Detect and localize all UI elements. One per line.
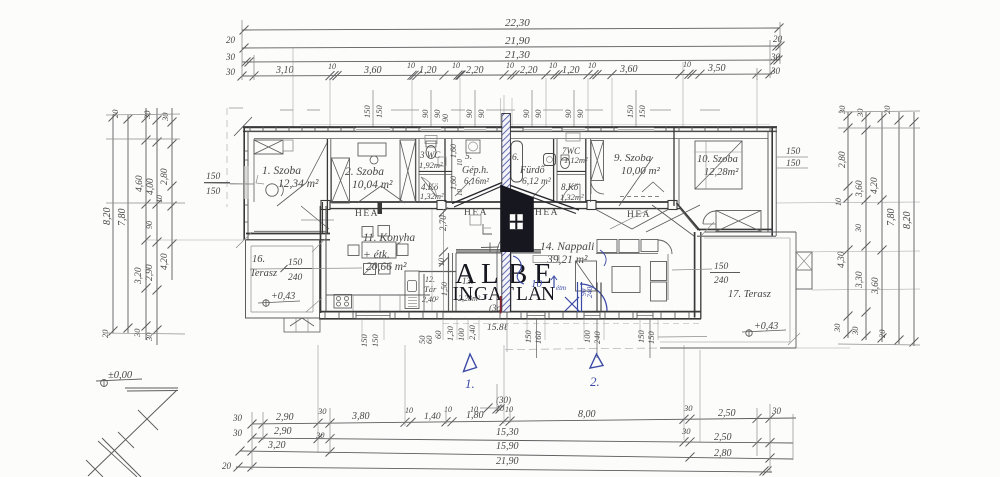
svg-text:10: 10 [834,198,843,206]
living sofa right column [651,262,667,281]
svg-text:150: 150 [786,147,801,157]
room12 walls [419,271,456,273]
svg-text:15.8ℓ: 15.8ℓ [487,323,508,333]
kitchen west wall [320,206,322,313]
top wall masonry ticks [249,127,251,132]
svg-text:8,00: 8,00 [578,409,596,420]
south wall stub post [378,202,383,214]
wc7 small window rect [566,133,580,141]
svg-text:N: N [541,284,555,305]
blue section triangle 1 [464,354,477,372]
svg-text:1.: 1. [465,376,475,391]
kitchen-entry divider line [431,209,433,311]
svg-text:150: 150 [359,334,369,348]
room10 corner shelf arc [703,211,716,224]
wc3 door [438,157,446,166]
gep5 appliance [466,140,480,153]
long vertical extension x=293 [292,48,294,127]
svg-text:150: 150 [362,105,372,119]
bottom block vertical extensions [251,412,253,470]
svg-text:30: 30 [837,105,847,115]
svg-text:150: 150 [288,258,303,268]
left wall masonry ticks [244,150,249,152]
building left exterior wall [243,127,245,240]
window dim pair 150/150 at x=373 [372,90,374,127]
svg-text:3,60: 3,60 [363,65,382,76]
svg-text:2,90: 2,90 [145,264,155,281]
svg-text:90: 90 [476,109,486,118]
svg-text:1,20: 1,20 [562,65,580,76]
watermark house body [500,185,534,253]
svg-text:3,60: 3,60 [855,180,865,198]
top block right extension lines [779,22,781,64]
svg-text:2,20: 2,20 [520,65,538,76]
right dim block vertical line col3 [881,112,883,342]
long vertical extension x=504 [503,95,505,113]
svg-text:30: 30 [225,52,236,62]
bottom chain line 2 [252,438,793,443]
svg-text:10: 10 [683,60,691,69]
svg-text:1,60: 1,60 [449,144,458,158]
blue arrow near ALBE [553,277,555,288]
bottom-left slope tick 1 [138,410,158,430]
room1 niche bracket [256,175,264,184]
svg-text:2,20: 2,20 [466,65,484,76]
svg-text:20: 20 [110,109,120,118]
svg-text:60: 60 [433,330,443,339]
svg-text:30: 30 [160,112,170,122]
svg-text:10: 10 [506,61,514,70]
svg-text:15,90: 15,90 [496,441,519,452]
room13 east wall [455,253,457,311]
svg-text:150: 150 [206,172,221,182]
svg-text:2.: 2. [590,374,600,389]
svg-text:90: 90 [441,114,450,122]
left 150/150 window dim [204,183,254,184]
kitchen table [362,242,396,258]
svg-text:10: 10 [531,278,543,290]
svg-text:8,20: 8,20 [902,212,913,230]
living sofa top row [597,240,617,253]
svg-text:20: 20 [222,461,232,471]
window dim pair 90/90 at x=574 [573,90,575,127]
svg-text:4,20: 4,20 [870,177,880,194]
strip flank verticals above building [500,98,502,127]
bottom-left slope double diagonal [102,438,141,477]
room12/13 north wall [456,250,541,253]
datum cross near entry [481,246,499,249]
leader line from 150/150 labels right [658,336,707,339]
extension verticals below wall [361,319,363,340]
svg-text:2,50: 2,50 [714,432,732,443]
svg-text:2. Szoba: 2. Szoba [345,166,384,178]
dimension chain line segments top [242,74,772,76]
blue X mark at entry [565,297,579,311]
svg-text:10: 10 [407,61,415,70]
corridor desk [470,215,481,225]
svg-text:30: 30 [132,328,142,338]
svg-text:10: 10 [549,61,557,70]
dashed footing line below wall [443,323,700,325]
blue section triangle 2 [590,354,603,368]
svg-text:30: 30 [317,406,327,416]
blue S curve [513,256,524,284]
building top exterior wall [243,126,777,128]
svg-text:Terasz: Terasz [250,268,277,279]
kitchen stove with burners [334,295,352,309]
svg-text:4,20: 4,20 [160,253,170,270]
room10 crossed bench [716,211,761,232]
left block horizontal connectors [106,114,180,115]
room9 door swing [591,181,604,194]
right dim block vertical line 8,20 [913,112,915,346]
room1 ceiling leader line [230,183,254,185]
svg-text:21,90: 21,90 [505,35,530,47]
svg-text:3,50: 3,50 [707,63,726,74]
svg-text:15,30: 15,30 [496,427,519,438]
svg-text:60: 60 [424,335,434,344]
svg-text:90: 90 [533,109,543,118]
dimension line 21,90 [242,46,780,48]
left dim block vertical line col3 [145,108,147,340]
eaves faint line above top wall [300,123,770,125]
svg-text:90: 90 [563,109,573,118]
svg-text:10: 10 [505,405,513,414]
svg-text:6,12 m²: 6,12 m² [522,177,551,187]
right block horizontal connectors [838,111,920,112]
kitchen oven tower [405,271,419,309]
svg-text:+0,43: +0,43 [271,291,295,302]
svg-text:Tár: Tár [424,284,437,294]
svg-text:30: 30 [854,224,863,233]
room9 dashed line [620,196,660,198]
level mark +-0,00 [101,380,108,387]
chimney shaft blue hatched strip [502,114,511,313]
svg-text:8.Kö: 8.Kö [561,182,579,192]
room1 tall wardrobe crossed [332,158,350,203]
dimension line 21,30 [242,60,780,62]
svg-text:1,92m²: 1,92m² [419,160,443,170]
bottom wall window openings [356,313,390,318]
interior vertical dim 2,70 [443,209,445,311]
kitchen counter along bottom [326,294,430,296]
svg-text:150: 150 [206,187,221,197]
kitchen chair diagonal [364,264,376,275]
terrace 17 corner diagonal [700,222,714,237]
svg-text:1. Szoba: 1. Szoba [262,165,301,177]
svg-text:2,40²: 2,40² [422,295,439,304]
svg-text:90: 90 [420,109,430,118]
svg-text:5.: 5. [465,152,472,162]
room10 bed with diagonal [695,141,742,189]
svg-text:1,40: 1,40 [424,412,441,422]
long extension verticals below wall [536,319,538,358]
svg-text:1,50: 1,50 [440,282,449,296]
svg-text:4,00: 4,00 [146,178,156,195]
svg-text:90: 90 [145,221,154,229]
wc3 window sill [425,136,437,144]
wc7 toilet [561,158,570,169]
room9 chevron [642,182,664,192]
svg-text:150: 150 [637,105,647,119]
svg-text:100: 100 [582,330,592,344]
svg-text:21,90: 21,90 [496,456,519,467]
svg-text:20: 20 [773,34,783,44]
hall door swings below room9 [595,209,669,229]
svg-text:10: 10 [470,405,478,414]
room1 lamp circle [266,184,278,196]
corridor door arc [497,231,519,253]
svg-text:6.: 6. [512,153,519,163]
svg-text:10. Szoba: 10. Szoba [697,154,738,165]
svg-text:1,30: 1,30 [445,325,455,341]
right 150/150 window dim [776,156,808,158]
svg-text:1,60: 1,60 [449,176,458,190]
svg-text:3,10: 3,10 [275,65,294,76]
svg-text:30: 30 [225,67,236,77]
svg-text:HEA: HEA [464,208,488,218]
svg-text:N: N [459,284,473,305]
svg-text:10: 10 [405,406,413,415]
svg-text:150: 150 [714,262,729,272]
svg-text:30: 30 [850,326,860,336]
svg-text:20: 20 [877,329,887,338]
left dim block vertical line 7,80 [127,115,129,333]
svg-text:20: 20 [226,35,236,45]
svg-text:4,30: 4,30 [837,251,847,268]
bottom chain line 4 total 21,90 [236,467,772,472]
building top-left corner diagonal tick [234,117,252,136]
svg-text:22,30: 22,30 [505,17,530,29]
dimension line total 22,30 [242,28,780,30]
svg-text:150: 150 [523,330,533,344]
living coffee table [612,267,640,293]
top wall window openings (thin sill lines) [356,128,390,131]
svg-text:2,70: 2,70 [438,215,448,231]
svg-text:3,60: 3,60 [871,277,881,295]
svg-text:240: 240 [585,287,594,299]
living armchair crossed [576,261,597,291]
room1 interior diagonals [277,183,306,206]
bottom chain line 1 segments [252,418,796,424]
svg-text:30: 30 [232,413,243,423]
svg-text:12,34 m²: 12,34 m² [278,178,319,190]
wc3 toilet [426,141,436,147]
terrace 16 window dim 150/240 [250,268,362,269]
svg-text:150: 150 [786,159,801,169]
bottom-left slope main diagonal [88,390,177,476]
svg-text:14. Nappali: 14. Nappali [540,241,594,253]
svg-text:90: 90 [575,109,585,118]
svg-text:10: 10 [456,189,464,197]
bedroom south wall [326,201,677,203]
svg-text:3,20: 3,20 [134,267,144,285]
svg-text:Fürdő: Fürdő [519,165,546,176]
right dim block vertical line col1 [847,112,849,338]
svg-text:30: 30 [315,430,325,440]
svg-text:12,28m²: 12,28m² [704,167,739,178]
svg-text:100: 100 [456,328,466,342]
building bottom exterior wall [319,311,701,313]
svg-text:étm: étm [556,284,566,292]
svg-text:3,80: 3,80 [351,411,370,422]
svg-text:10,04 m²: 10,04 m² [352,179,393,191]
vertical extension lines from top chain to building [329,78,331,127]
svg-text:10: 10 [452,61,460,70]
partition wall room2 - wc3 [415,139,417,202]
living east wall [694,232,696,318]
svg-text:+0,43: +0,43 [754,321,778,332]
terrace 17 level mark +0,43 [746,330,752,336]
ko8 door swing [562,184,580,202]
diagonal wall hall to room10 [677,203,701,231]
svg-text:6,16m²: 6,16m² [464,176,489,186]
terrace 17 pillar [796,252,812,289]
bottom-left corner diagonal [86,460,103,477]
bottom wall masonry ticks [324,312,326,319]
svg-text:12.: 12. [425,275,435,284]
room2 tall wardrobe crossed [400,140,416,202]
svg-text:30: 30 [832,323,842,333]
svg-text:30: 30 [770,52,781,62]
window dim pair 90/90 at x=475 [474,90,476,127]
svg-text:HEA: HEA [355,209,379,219]
room10 south wall [697,228,772,230]
svg-text:30: 30 [232,428,243,438]
terrace 16 steps [284,318,320,332]
svg-text:10: 10 [588,61,596,70]
room1 small cabinet [283,140,293,151]
building right exterior wall [771,127,773,236]
gep5 door swing [455,178,473,196]
living tv cabinet [533,256,559,263]
svg-text:90: 90 [521,109,531,118]
svg-text:10: 10 [155,195,164,203]
room9 tall wardrobe crossed [591,141,604,181]
svg-text:4,60: 4,60 [135,175,145,192]
bottom-left slope sketch double top line [125,387,178,389]
svg-text:30: 30 [771,406,782,416]
svg-text:30: 30 [770,66,781,76]
svg-text:30: 30 [681,426,691,436]
watermark house window [510,214,523,229]
partition wall room9 - room10 [673,127,675,206]
left dim block vertical line col4 [156,108,158,345]
entry recess opening in bottom wall [443,313,500,318]
partition wall rooms 1-2 [326,139,328,234]
svg-text:30: 30 [683,403,693,413]
svg-text:10: 10 [456,159,464,167]
kitchen north cabinet line [301,219,334,221]
top block left extension lines [241,20,243,80]
bottom chain line 3 [240,451,793,459]
wc7 south wall [557,170,586,172]
terrace 16 corner diagonals [236,232,252,248]
svg-text:7,80: 7,80 [886,209,897,227]
svg-text:160: 160 [533,331,543,345]
watermark roof right line [502,183,579,211]
room1 wardrobe crossed [254,140,283,154]
svg-text:2,80: 2,80 [838,151,848,168]
window dim pair 150/150 at x=636 [635,90,637,127]
partition wall wc7 - room9 [585,139,587,202]
terrace 17 window dim 150/240 [672,269,712,270]
svg-text:8,20: 8,20 [102,208,113,226]
svg-text:30: 30 [855,108,865,118]
svg-text:1,32m²: 1,32m² [560,192,584,202]
svg-text:L: L [516,284,528,305]
short line above corner [229,107,243,109]
svg-text:10: 10 [444,405,452,414]
left dim block vertical line 8,20 [112,115,114,333]
furdo6 bathtub [511,141,523,182]
blue curve small right [600,250,606,266]
svg-text:9. Szoba: 9. Szoba [614,152,652,164]
ko4 door swing [421,177,437,197]
hall big X to terrace [646,205,700,232]
watermark roof left line [452,183,502,204]
svg-text:240: 240 [288,273,303,283]
svg-text:2,90: 2,90 [274,426,292,437]
left wall window opening [244,166,249,199]
svg-text:30: 30 [142,110,152,120]
entry door frame dark lines [596,283,598,312]
partition wall wc3 - gep [444,139,446,202]
room2 door leaf triangles [357,186,381,203]
furdo6 washbasin [544,154,556,166]
kitchen chairs [362,227,373,238]
window dim pair 90/90 at x=532 [531,90,533,127]
room2 bed [358,143,386,156]
svg-text:240: 240 [714,276,729,286]
svg-text:2,90: 2,90 [276,412,294,423]
terrace 16 outline [246,240,320,318]
svg-text:90: 90 [464,109,474,118]
svg-text:3,20: 3,20 [267,440,286,451]
chimney red flue line [500,296,502,314]
svg-text:150: 150 [646,331,656,345]
window dim pair 90/90 at x=431 [430,90,432,127]
svg-text:(30): (30) [496,395,511,405]
bottom-left slope tick 2 [118,432,134,448]
top chain tick marks [238,72,247,81]
svg-text:10: 10 [437,258,446,266]
room9 big diagonal [619,157,653,206]
svg-text:10: 10 [328,62,336,71]
terrace 16 level mark +0,43 [263,300,269,306]
wc3 south wall [419,170,452,172]
svg-text:2,40: 2,40 [467,324,477,340]
svg-text:Gép.h.: Gép.h. [462,165,489,176]
long vertical extension x=683 [682,62,684,127]
svg-text:3,60: 3,60 [619,64,638,75]
left dim block vertical line col5 [171,108,173,280]
south wall posts [321,201,330,210]
svg-text:21,30: 21,30 [505,49,530,61]
svg-text:7,80: 7,80 [117,209,128,227]
svg-text:+ étk.: + étk. [363,249,390,261]
svg-text:2,80: 2,80 [160,168,170,185]
svg-text:16.: 16. [252,254,265,265]
svg-text:150: 150 [374,105,384,119]
svg-text:1,20: 1,20 [419,65,437,76]
terrace 17 outline [704,231,796,233]
right dim block vertical line col2 [865,112,867,340]
right dim block vertical line 7,80 [898,112,900,344]
room1 south wall [246,233,330,235]
furdo6 door swing [530,184,545,200]
blue entry door swing [580,284,607,311]
